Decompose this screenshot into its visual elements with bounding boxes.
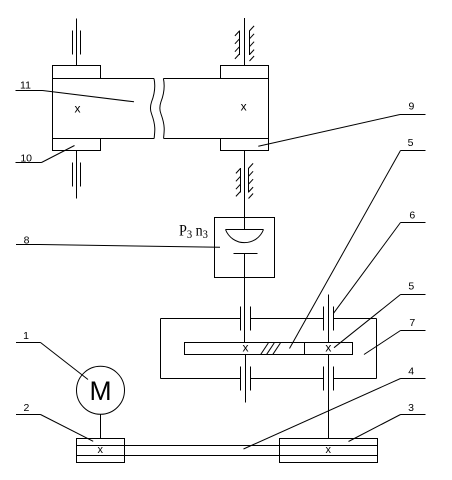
motor shaft [100,414,102,438]
belt 4 [125,446,280,456]
shaft coupling to gearbox [244,254,246,319]
motor 1 circle [77,366,125,414]
gearbox 7 housing [161,319,377,379]
bearing block 10 bottom-left [53,139,101,151]
svg-text:5: 5 [408,137,414,149]
drum 11 right section body [160,79,269,139]
coupling shaft upper inside [244,218,246,230]
svg-text:x: x [241,99,247,113]
coupling bowl [226,230,264,243]
gearbox input shaft (right, to pulley) [328,295,330,343]
svg-text:9: 9 [408,101,414,113]
coupling 8 box [215,218,275,278]
svg-text:M: M [89,376,111,406]
svg-text:x: x [75,102,81,116]
svg-text:3: 3 [408,402,414,414]
svg-text:x: x [243,341,249,355]
left drum shaft top [73,19,81,66]
svg-text:5: 5 [408,281,414,293]
gear divider [304,343,306,355]
svg-text:1: 1 [23,330,29,342]
small pulley 2 [77,439,125,463]
bearing left-bottom [241,367,251,391]
right drum shaft top segment [244,18,246,66]
bearing right-bottom [324,367,334,391]
svg-text:P3 n3: P3 n3 [179,223,208,242]
wall bearing top (hatched) [235,26,254,61]
svg-text:4: 4 [408,365,414,377]
drum 11 left section body [53,79,155,139]
bearing block top-left [53,66,101,79]
big pulley 3 [280,439,378,463]
bearing block top-right [221,66,269,79]
gear wheel 5 bar [185,343,353,355]
svg-text:7: 7 [409,317,415,329]
left drum shaft bottom [73,151,81,199]
svg-text:6: 6 [409,209,415,221]
svg-text:x: x [325,340,331,354]
svg-text:x: x [326,444,332,456]
svg-text:x: x [98,444,104,456]
svg-text:2: 2 [23,402,29,414]
bearing left-top [241,307,251,331]
helical hatch marks [261,343,281,354]
bearing 6 right-top [324,307,334,331]
svg-text:11: 11 [20,79,31,91]
coupling T bar [234,253,258,255]
gearbox output shaft (left, to coupling) [244,319,246,343]
wall bearing middle (hatched) [236,163,253,198]
right drum shaft lower segment [244,151,246,218]
bearing block 9 bottom-right [221,139,269,151]
